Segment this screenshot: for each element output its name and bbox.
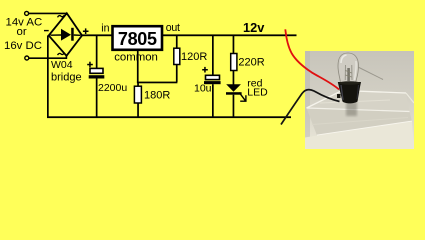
LED light arrow xyxy=(239,93,246,102)
AC input terminal (top) xyxy=(25,11,29,15)
label: input voltage xyxy=(4,17,42,52)
wire: LED cathode to 0v rail xyxy=(233,95,235,118)
diode inside bridge xyxy=(51,28,81,41)
svg-text:common: common xyxy=(114,52,158,64)
svg-text:12v: 12v xyxy=(243,20,265,35)
polarity label + (bridge positive) xyxy=(83,28,89,34)
svg-text:16v DC: 16v DC xyxy=(4,40,42,52)
resistor 120R xyxy=(174,35,180,82)
svg-text:2200u: 2200u xyxy=(98,82,127,94)
AC input terminal (bottom) xyxy=(25,56,29,60)
svg-text:or: or xyxy=(17,26,27,38)
AC marking ~ (top) xyxy=(58,15,65,17)
wire: top AC input to bridge xyxy=(29,13,66,15)
polarity + for 10u xyxy=(202,67,208,73)
svg-text:in: in xyxy=(101,22,109,34)
black wire from 0v rail to lamp xyxy=(281,90,340,125)
0v rail wire xyxy=(47,116,291,118)
LED red (diode symbol) xyxy=(226,84,242,95)
polarity label - (bridge negative) xyxy=(44,30,49,31)
svg-text:out: out xyxy=(166,22,180,34)
AC marking ~ (bottom) xyxy=(58,53,65,55)
wire: bridge + to 7805 in xyxy=(82,34,113,36)
red wire from 12v to lamp xyxy=(285,29,339,89)
regulator 7805 box xyxy=(113,26,163,50)
label red LED xyxy=(247,78,268,99)
wire: 2200u branch from + rail xyxy=(96,35,98,68)
wire: 10u branch xyxy=(212,35,214,75)
label: W04 bridge xyxy=(51,59,82,84)
wire: divider node (common to 120R bottom) xyxy=(137,82,178,84)
capacitor 2200u electrolytic xyxy=(89,68,105,117)
svg-text:LED: LED xyxy=(247,86,268,98)
capacitor 10u xyxy=(204,75,221,117)
svg-text:180R: 180R xyxy=(144,90,170,102)
wire: 7805 out to 12v node xyxy=(163,34,297,36)
polarity + for 2200u xyxy=(87,62,93,68)
svg-text:W04: W04 xyxy=(51,59,73,71)
wire: bridge negative down to 0v rail xyxy=(47,36,49,118)
svg-text:bridge: bridge xyxy=(51,72,82,84)
wire: common pin down xyxy=(137,51,139,83)
svg-text:10u: 10u xyxy=(194,82,212,94)
svg-text:7805: 7805 xyxy=(118,29,157,49)
svg-text:220R: 220R xyxy=(238,57,264,69)
photo of 12v lamp on acrylic block xyxy=(305,51,414,149)
bridge rectifier W04 (diamond) xyxy=(49,13,82,56)
wire: 220R to LED xyxy=(233,71,235,85)
resistor 180R xyxy=(134,82,141,117)
resistor 220R xyxy=(231,54,237,71)
svg-text:120R: 120R xyxy=(181,51,207,63)
wire: bottom AC input to bridge xyxy=(29,56,66,59)
wire: LED branch from 12v xyxy=(233,35,235,54)
